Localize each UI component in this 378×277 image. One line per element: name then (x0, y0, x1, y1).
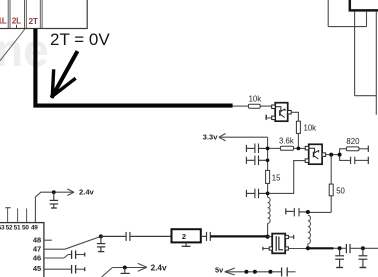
svg-text:2.4v: 2.4v (151, 263, 167, 272)
svg-text:10k: 10k (249, 94, 262, 103)
svg-text:2: 2 (182, 232, 186, 241)
svg-text:1L: 1L (0, 15, 7, 25)
svg-text:2T: 2T (29, 16, 38, 26)
svg-text:ne: ne (0, 24, 49, 76)
svg-text:5v: 5v (215, 266, 224, 275)
svg-text:2T = 0V: 2T = 0V (50, 30, 110, 49)
svg-text:3.3v: 3.3v (203, 133, 218, 142)
svg-text:51: 51 (14, 225, 21, 232)
svg-text:2.4v: 2.4v (79, 188, 95, 197)
svg-text:52: 52 (6, 225, 13, 232)
svg-text:10k: 10k (304, 123, 317, 132)
svg-text:820: 820 (346, 137, 360, 146)
svg-text:50: 50 (336, 187, 345, 196)
svg-text:53: 53 (0, 225, 5, 232)
svg-text:50: 50 (22, 225, 29, 232)
svg-text:48: 48 (33, 235, 41, 244)
svg-text:2L: 2L (12, 15, 21, 25)
svg-text:15: 15 (272, 174, 281, 183)
svg-text:47: 47 (33, 245, 41, 254)
svg-text:3.6k: 3.6k (279, 137, 294, 146)
svg-text:49: 49 (31, 225, 38, 232)
svg-text:46: 46 (33, 253, 41, 262)
svg-text:45: 45 (33, 264, 41, 273)
